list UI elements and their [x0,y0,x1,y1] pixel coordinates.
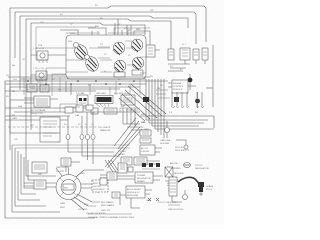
svg-text:BLK: BLK [95,26,100,28]
svg-text:1CR: 1CR [38,45,43,47]
svg-text:120V: 120V [70,33,76,35]
svg-text:0N: 0N [58,89,61,91]
svg-text:RED: RED [136,29,141,31]
svg-text:4D: 4D [6,96,9,98]
